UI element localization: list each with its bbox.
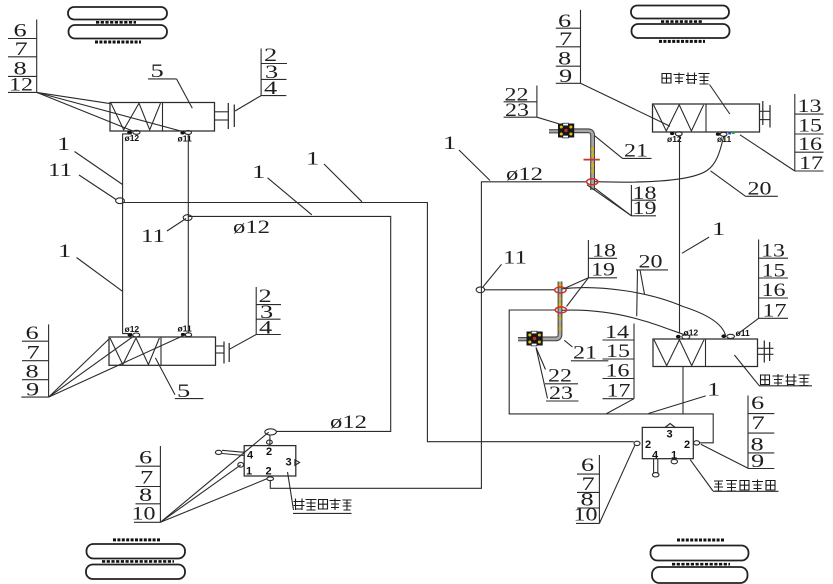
svg-text:11: 11 <box>141 226 165 247</box>
label 22/23 (rear fitting) <box>536 348 579 404</box>
svg-text:1: 1 <box>707 379 720 400</box>
label stack 6/7/8/9 (rear-left) <box>21 323 48 400</box>
svg-text:1: 1 <box>58 241 71 262</box>
port marker ø11 of chamber 5 rear-left <box>178 324 192 337</box>
brake chamber rear-right: divider <box>705 339 707 367</box>
wire branch into rear-right chamber spring section <box>682 367 684 414</box>
label 驻车继动阀 (parking relay valve) <box>690 460 778 492</box>
wire parking line from junction 18/19 lower to parking relay valve <box>509 310 713 443</box>
brake chamber 5 front-left: divider <box>162 103 164 132</box>
port marker ø12 of chamber 5 front-left <box>125 130 140 143</box>
hatch marks (yellow) on rear pipe <box>559 284 562 331</box>
svg-text:3: 3 <box>286 457 292 469</box>
node 11 on right service line <box>476 287 485 293</box>
svg-text:1: 1 <box>306 149 319 170</box>
svg-text:4: 4 <box>652 450 659 462</box>
label stack 14/15/16/17 (rear pipe assembly) <box>603 322 635 414</box>
label 制动气室 (front-right chamber) <box>662 73 730 115</box>
svg-text:ø11: ø11 <box>178 134 192 144</box>
svg-text:1: 1 <box>712 219 725 240</box>
svg-text:7: 7 <box>752 413 765 434</box>
svg-text:ø12: ø12 <box>684 327 699 337</box>
label 行车继动阀 (service relay valve) <box>288 472 352 513</box>
parking relay valve body <box>642 427 693 458</box>
node 11 on right riser <box>183 215 192 221</box>
svg-text:ø12: ø12 <box>125 324 140 334</box>
svg-text:ø11: ø11 <box>178 324 192 334</box>
wire circuit 1: right node down to service relay valve port 2 <box>188 216 390 431</box>
svg-text:4: 4 <box>259 318 273 339</box>
port marker ø11 of chamber rear-right <box>721 328 750 338</box>
wire left ø12 riser (front chamber to rear chamber) <box>123 134 132 334</box>
label 1 (front-right ø12 drop) <box>682 219 725 253</box>
brake chamber rear-right: pushrod symbol <box>758 341 774 363</box>
svg-text:1: 1 <box>252 162 265 183</box>
service relay valve port 3 (exhaust) <box>286 457 300 469</box>
port marker ø12 of chamber front-right <box>667 132 682 144</box>
label 11 (left node) <box>48 160 116 200</box>
svg-text:6: 6 <box>581 455 594 476</box>
hatch marks (yellow) on front pipe <box>591 148 594 174</box>
label stack 6/7/8/9 (front-right) <box>556 10 670 126</box>
svg-text:11: 11 <box>48 160 72 181</box>
node 18/19 red marker on front pipe <box>587 179 598 185</box>
service relay valve body <box>244 446 296 476</box>
brake chamber front-right: pushrod symbol <box>760 101 771 128</box>
pipe 18/19 front (gray elbow tube) <box>549 131 593 190</box>
label 1 (above parking valve) <box>648 379 720 413</box>
svg-text:ø11: ø11 <box>717 134 731 144</box>
svg-text:10: 10 <box>574 505 598 526</box>
wire circuit 1: left node to parking relay valve port 2 <box>123 203 634 442</box>
node 18 red marker on rear pipe <box>555 287 566 293</box>
port marker ø11 of chamber 5 front-left <box>178 131 192 144</box>
svg-text:7: 7 <box>27 342 40 363</box>
label stack 6/7/8/10 (service relay) <box>132 446 161 524</box>
svg-text:4: 4 <box>247 450 254 462</box>
label stack 2/3/4 (rear-left) <box>229 286 281 349</box>
svg-text:3: 3 <box>667 429 673 441</box>
parking relay valve port 2 right <box>684 439 700 451</box>
parking relay valve port 4 (stem down) <box>652 450 659 477</box>
brake chamber 5 rear-left: divider <box>160 337 162 365</box>
wire node to pipe junction 18/19 upper <box>485 289 555 291</box>
svg-text:ø12: ø12 <box>506 164 543 185</box>
svg-text:ø12: ø12 <box>125 133 140 143</box>
hose 20 rear upper (junction 18 to chamber port ø11) <box>561 288 726 336</box>
svg-text:2: 2 <box>684 439 690 451</box>
wheel front-right (dual tire) <box>631 6 730 42</box>
svg-text:1: 1 <box>443 133 456 154</box>
node 19 red marker on rear pipe <box>555 307 566 313</box>
leader lines from stack 9 to chamber 5 rear-left <box>49 334 186 397</box>
node 11 on left riser <box>116 198 125 204</box>
service relay valve port 2 bottom <box>266 466 274 481</box>
brake chamber 5 front-left: pushrod symbol <box>215 103 235 129</box>
brake chamber 5 rear-left: body <box>109 337 216 365</box>
svg-text:2: 2 <box>266 466 272 478</box>
service relay valve port 4 (control stem) <box>215 450 254 462</box>
label 1 (mid-upper, points to parking line) <box>306 149 362 202</box>
svg-text:1: 1 <box>57 134 70 155</box>
label 5 (rear-left chamber) <box>155 358 203 402</box>
parking relay valve port 2 left <box>634 439 651 451</box>
port marker ø12 of chamber 5 rear-left <box>125 324 140 337</box>
label 11 (right service node) <box>483 248 527 287</box>
wire left ø11 riser <box>187 134 189 332</box>
parking relay valve port 1 <box>671 450 678 464</box>
label stack 13/15/16/17 (rear-right) <box>737 240 788 335</box>
label 18/19 (rear nodes) <box>564 240 617 307</box>
port marker ø11 of chamber front-right (with seal dots) <box>716 131 735 144</box>
svg-text:10: 10 <box>132 503 156 524</box>
brake chamber 5 front-left: spring <box>111 103 161 130</box>
leader lines from stack 12 to chamber 5 front-left <box>37 92 183 131</box>
label ø12 (service line to relay) <box>330 412 367 433</box>
label 21 (rear fitting) <box>564 340 608 363</box>
label 1 (mid, points to service line) <box>252 162 312 215</box>
svg-text:6: 6 <box>139 448 152 469</box>
brake chamber 5 front-left: body <box>110 103 215 132</box>
brake chamber rear-right: spring <box>654 340 704 366</box>
label ø12 (service line right) <box>506 164 543 185</box>
label stack 13/15/16/17 (front-right) <box>740 94 824 174</box>
label 5 (front-left chamber) <box>148 61 192 108</box>
brake chamber 5 rear-left: spring <box>110 338 159 365</box>
service relay valve port 1 <box>238 462 252 477</box>
label ø12 (left circuit) <box>233 217 270 238</box>
brake chamber front-right: body <box>653 104 760 132</box>
svg-text:2: 2 <box>645 439 651 451</box>
label stack 6/7/8/10 (parking circuit left) <box>574 445 635 525</box>
wheel front-left (dual tire) <box>68 7 167 42</box>
red tick on front pipe <box>584 159 600 161</box>
fitting 22/23 rear (connector block) <box>527 331 543 346</box>
svg-text:ø12: ø12 <box>233 217 270 238</box>
wheel rear-right (dual tire) <box>651 540 749 583</box>
brake chamber front-right: spring <box>654 105 704 131</box>
wire front-right chamber ø12 down to rear-right chamber ø12 <box>679 136 681 333</box>
svg-text:1: 1 <box>246 466 252 478</box>
label 20 (rear hoses) <box>636 251 668 316</box>
label 1 (service line top corner) <box>443 133 490 181</box>
svg-text:20: 20 <box>639 251 663 272</box>
label 制动气室 (rear-right chamber) <box>734 355 812 386</box>
service relay valve port 2 top (pipe socket) <box>265 429 277 458</box>
svg-text:1: 1 <box>671 450 677 462</box>
label stack 6/7/8/9 (parking relay right) <box>701 393 775 472</box>
fitting 22/23 front (connector block) <box>558 123 574 138</box>
leader lines from stack 10 to service relay valve <box>160 432 268 522</box>
label 11 (right node) <box>141 219 186 248</box>
wire service line from relay valve lower port 2 <box>270 182 586 489</box>
svg-text:2: 2 <box>266 446 272 458</box>
hose 20 rear lower (junction 19 to chamber port ø12) <box>561 310 687 336</box>
label 1 (left riser, upper) <box>57 134 123 185</box>
pipe 18/19 rear (gray elbow tube) <box>518 282 560 340</box>
label 18/19 (front node) <box>587 183 657 219</box>
port marker ø12 of chamber rear-right <box>676 327 699 339</box>
brake chamber front-right: divider <box>705 104 707 132</box>
hose 20 front-right (junction to chamber port ø11) <box>592 136 724 182</box>
brake chamber rear-right: body <box>653 339 758 367</box>
label 1 (left riser, lower) <box>58 241 123 291</box>
wheel rear-left (dual tire) <box>86 540 185 579</box>
brake chamber 5 rear-left: pushrod symbol <box>216 342 230 364</box>
svg-text:11: 11 <box>503 248 527 269</box>
label 21 (front fitting) <box>595 136 652 162</box>
label stack 6/7/8/12 (front-left) <box>8 20 37 96</box>
label stack 2/3/4 (front-left) <box>235 45 287 111</box>
label 20 (front hose) <box>711 171 778 200</box>
svg-text:ø12: ø12 <box>330 412 367 433</box>
parking relay valve port 3 (top, check symbol) <box>665 424 676 441</box>
svg-text:6: 6 <box>751 393 764 414</box>
label 22/23 (front fitting) <box>504 84 561 124</box>
